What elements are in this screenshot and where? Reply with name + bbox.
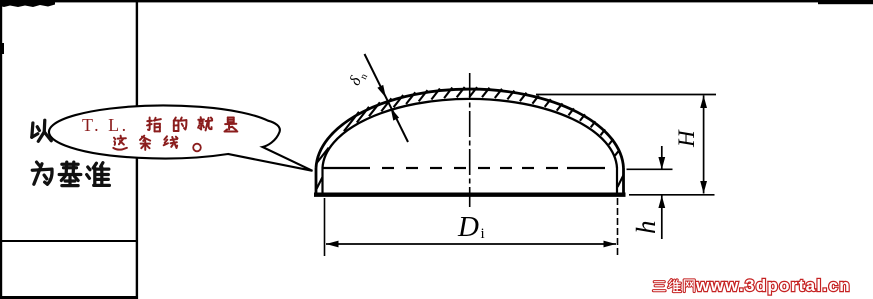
border top-right thick scan bar — [818, 0, 873, 4]
left flange inner wall — [321, 168, 323, 196]
blob on left edge — [0, 43, 4, 54]
centerline vertical — [469, 73, 471, 207]
watermark CJK san wei wang (white core pass) — [653, 282, 665, 291]
head inner surface (ellipse arc) — [323, 99, 618, 168]
border top-left thick scan bar — [0, 0, 55, 7]
border top line — [0, 0, 873, 2]
delta-n leader line — [365, 54, 409, 142]
hatching of shell section — [316, 87, 623, 189]
left column text: wei ji zhun — [32, 162, 52, 184]
svg-text:www.3dportal.cn: www.3dportal.cn — [695, 276, 851, 295]
Di dimension line — [326, 243, 616, 245]
watermark CJK san wei wang (red outline pass) — [653, 282, 665, 291]
left column text: yi — [32, 120, 51, 141]
H dimension line — [703, 96, 705, 194]
arrowhead H bottom — [700, 181, 707, 194]
tangent extension line right — [627, 168, 673, 170]
border left edge — [0, 0, 2, 299]
left flange outer wall — [315, 168, 318, 196]
Di extension line right — [617, 198, 619, 256]
hatch right flange — [618, 175, 624, 187]
h dimension line upper — [661, 146, 663, 170]
arrowhead delta upper — [377, 85, 386, 98]
right flange inner wall — [616, 168, 618, 196]
right flange outer wall — [622, 168, 625, 196]
base extension line right — [629, 194, 715, 196]
h dimension line lower — [661, 196, 663, 240]
bubble text line 1 CJK: zhi de jiu shi — [147, 117, 161, 131]
arrowhead Di right — [604, 241, 617, 248]
bottom-left black bar — [0, 296, 138, 299]
table divider vertical x=137 — [136, 0, 138, 299]
arrowhead H top — [700, 96, 707, 109]
arrowhead delta lower — [391, 108, 400, 121]
head outer surface (ellipse arc) — [316, 89, 624, 168]
bubble text line 2 CJK: zhe tiao xian — [113, 136, 127, 150]
left column row separator y=241 — [0, 240, 137, 242]
svg-text:D: D — [457, 211, 479, 243]
bubble text line 2 full stop — [193, 144, 201, 152]
base line of head — [314, 192, 626, 196]
arrowhead h lower — [658, 196, 665, 209]
speech bubble with tail — [49, 105, 313, 170]
H top extension line — [536, 94, 716, 96]
svg-text:i: i — [481, 226, 485, 242]
label delta-n (rotated along leader) — [346, 68, 370, 89]
tangent line T.L. (dashed) — [323, 167, 605, 169]
hatch left flange — [317, 177, 323, 189]
svg-text:h: h — [631, 221, 661, 235]
Di extension line left — [324, 198, 326, 256]
svg-text:H: H — [674, 129, 699, 148]
svg-text:T. L.: T. L. — [82, 115, 129, 135]
arrowhead h upper — [658, 157, 665, 170]
arrowhead Di left — [326, 241, 339, 248]
